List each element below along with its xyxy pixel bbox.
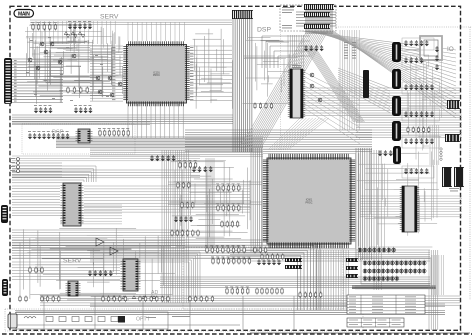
wire bus: rail pair y124 <box>12 122 150 125</box>
opt black box <box>118 316 125 323</box>
wire bus: serv bottom rails <box>12 262 120 279</box>
cluster: diode row mid <box>66 35 69 38</box>
wire bus: verticals right of central IC <box>356 148 371 260</box>
DSP section dotted divider <box>280 27 282 152</box>
cluster: ground triangles row y296 <box>112 296 115 299</box>
opt row boxes <box>46 317 53 322</box>
jack J705 <box>393 146 401 164</box>
wire fan: DSP diagonal bundle left <box>240 31 328 148</box>
wire mesh: mid upper field <box>193 29 233 109</box>
cluster: caps under band y217 <box>174 216 177 222</box>
svg-text:PROC: PROC <box>153 74 160 77</box>
right edge header block B <box>454 167 464 187</box>
IO section dotted border <box>336 27 472 300</box>
capacitor C901 cylinder <box>8 314 17 328</box>
wire bus: long rails y277 <box>160 277 430 288</box>
wire bus: central IC top rails <box>185 130 372 152</box>
cluster: TL mid components <box>96 76 100 80</box>
IC101 servo QFP <box>127 45 187 104</box>
wire steps: left lower L bus <box>12 166 96 183</box>
wire bus: bottom rails y297 <box>40 296 460 305</box>
wire bus: verticals left of central IC <box>251 148 262 252</box>
wire bus: band second <box>90 149 263 156</box>
wire bus: short rails y202 <box>168 202 262 204</box>
cluster: row y234 <box>171 230 173 237</box>
jack J702 <box>392 69 401 89</box>
cluster: top diodes <box>64 32 67 35</box>
cluster: caps mid x200 <box>192 166 195 172</box>
wire bus: right low band <box>355 286 435 289</box>
cluster: boxes x218 y186 <box>217 185 219 192</box>
wire bus: cn602 horizontals <box>296 12 336 26</box>
wire mesh: left of IC601 <box>170 161 251 247</box>
svg-text:SERV: SERV <box>100 14 119 21</box>
right edge comb RB2 <box>445 134 460 142</box>
cluster: boxes row y110 right <box>254 103 256 110</box>
cluster: AD row1b <box>254 247 256 254</box>
wire bus: left long rails y170 <box>12 170 200 178</box>
wire bus: right long rails upper <box>302 88 460 116</box>
to the panel text <box>449 187 459 190</box>
cluster: dsp caps row <box>28 133 31 139</box>
right edge header block A <box>442 167 452 187</box>
text block dsp top <box>282 6 294 9</box>
cluster: caps bottom of TL <box>34 107 37 113</box>
right edge comb RB1 <box>447 100 460 109</box>
cluster: io cap group 5 <box>402 136 439 148</box>
cluster: io caps right col <box>435 46 438 52</box>
connector bar center-right <box>363 70 369 98</box>
wire bus: right mid rails <box>360 196 462 217</box>
DSP top dashed box <box>280 5 336 31</box>
wire bus: dip right rails <box>84 186 250 212</box>
IC701 vertical DIP right <box>402 186 417 232</box>
wire mesh: dsp left field <box>243 38 298 110</box>
wire fan: IC501 right fan <box>304 72 360 144</box>
wire steps: AD entry <box>90 252 200 300</box>
left edge test point circles <box>17 158 20 173</box>
OPT inner solid box <box>16 312 168 329</box>
jack J703 <box>392 96 401 116</box>
wire bus: verticals bottom right <box>432 255 444 295</box>
connector CN602 top right comb <box>304 4 334 10</box>
sheet edge dashed line <box>2 333 472 335</box>
IC chip label dsp servo <box>292 64 301 67</box>
connector hatch rows under CN602 <box>304 12 330 17</box>
wire bus: dotted rails dsp bottom <box>12 156 200 161</box>
cluster: below IC601 row <box>261 254 263 261</box>
wire bus: top rails above IC101 <box>30 20 232 24</box>
cluster: boxes x222 y222 <box>221 221 223 228</box>
wire mesh: right of IC601 field <box>357 150 439 248</box>
cluster: resistors left of IC601 <box>179 162 181 169</box>
MAIN label <box>14 10 34 18</box>
wire bus: left connector fan <box>12 59 63 103</box>
wire mesh: serv bottom field <box>20 228 175 300</box>
row above opt: cluster b <box>41 296 43 303</box>
wire fan: fan into central IC top <box>268 118 329 150</box>
row above opt: cluster a <box>19 296 21 303</box>
IC402 SOIC lower <box>68 281 78 296</box>
table: spec table <box>347 295 425 314</box>
cluster: boxes x218 y206 <box>217 205 219 212</box>
wire bus: verticals right col <box>430 125 439 165</box>
wire bus: verticals below IC101 <box>128 104 183 138</box>
cluster: dsp right res row <box>99 130 101 137</box>
connector CN601 top comb <box>232 10 253 19</box>
wire bus: right rails y115-140 <box>356 115 462 138</box>
wire bus: verticals below central IC <box>316 250 349 310</box>
opt text <box>146 316 156 319</box>
cluster: io cap group 3 <box>402 82 439 94</box>
wire bus: left dip rails <box>12 186 60 216</box>
cluster: AD row3 <box>226 288 228 295</box>
wire bus: lower left rails <box>12 230 185 248</box>
IC101 pin labels left <box>112 46 115 49</box>
wire steps: nested L bus bottom-left <box>12 240 320 310</box>
cluster: AD row3 right <box>256 288 258 295</box>
row above opt: cluster e <box>189 296 191 303</box>
wire bus: center vertical bus <box>233 19 252 152</box>
cluster: mid caps y155 <box>150 155 153 161</box>
cluster: serv bottom left boxes <box>29 267 31 274</box>
wire bus: IC101 right rails <box>190 46 232 101</box>
wire bus: rails y305 <box>90 304 445 306</box>
connector CN101 left <box>4 58 12 104</box>
wire bus: verticals frame bottom drops <box>44 296 294 330</box>
cluster: transistor grid bottom right <box>361 258 431 284</box>
cluster: AD row1 resistors <box>206 247 208 254</box>
IC501 dsp servo vertical <box>290 69 303 118</box>
cluster: transistors right of IC501 <box>310 73 314 77</box>
cluster: opamp triangles <box>96 238 118 255</box>
cluster: io cap group 2 <box>402 55 429 67</box>
cluster: AD row2 <box>212 258 214 265</box>
wire bus: dsp servo verticals <box>288 35 303 68</box>
cluster: caps row above dsp B <box>74 107 77 113</box>
cluster: io cap group 6 <box>402 166 434 178</box>
wire bus: vertical bundle x206 <box>206 158 214 250</box>
wire fan: DSP diagonal bundle right <box>301 31 456 118</box>
cluster: transistor group TL2 <box>28 58 32 62</box>
cluster: IC601 right caps <box>378 150 381 156</box>
opt wire rail <box>17 324 240 326</box>
svg-text:PROC: PROC <box>306 201 313 204</box>
cluster: top caps row A <box>68 23 71 29</box>
AD dashed sub-box <box>183 247 343 309</box>
right top box component <box>420 36 442 60</box>
row above opt: cluster d <box>139 296 141 303</box>
wire bus: bottom rail y330 <box>250 332 470 334</box>
wire bus: verticals into IC101 top <box>128 22 184 41</box>
row above opt: cluster c <box>102 296 104 303</box>
wire bus: dense band left <box>56 137 263 148</box>
wire bus: central IC bottom rails <box>230 250 430 261</box>
connector CN201 left lower <box>1 205 8 223</box>
cluster: row above grid <box>358 247 362 254</box>
cluster: y296 row center <box>299 292 301 299</box>
IC601 main QFP <box>267 158 351 244</box>
cluster: AD combs right <box>285 258 302 262</box>
opt inductor L901 <box>24 317 36 319</box>
wire bus: mid rails row <box>12 115 233 123</box>
wire mesh: io right field <box>403 42 445 159</box>
wire bus: rails into IC101 left pins <box>90 46 123 101</box>
cluster: io cap group 4 <box>402 109 439 121</box>
svg-text:DSP: DSP <box>257 27 271 34</box>
wire fan: dsp mid diagonal A <box>305 48 364 122</box>
IC401 DIP lower <box>123 259 138 291</box>
svg-text:MAIN: MAIN <box>18 11 30 17</box>
wire bus: verticals right col low <box>429 250 438 330</box>
cluster: dsp mid specks <box>344 41 348 44</box>
cluster: transistor group TL <box>40 42 44 46</box>
cluster: io cap group 1 <box>402 38 434 50</box>
cluster: dsp servo caps <box>304 45 307 51</box>
wire bus: short rails y183 <box>168 182 262 184</box>
wire bus: verticals from top rails <box>36 21 115 44</box>
wire bus: verticals far right of IC <box>374 150 381 290</box>
table: small table <box>347 318 404 327</box>
wire mesh: top-left upper strip <box>25 24 120 61</box>
IC301 opamp DIP <box>63 183 81 226</box>
IC201 SOIC dsp <box>78 129 90 143</box>
DSP dotted sub-box <box>22 124 135 154</box>
cluster: small boxes y95 <box>67 87 69 94</box>
connector CN301 left bottom <box>2 279 8 296</box>
right circles row <box>440 148 442 161</box>
cluster: AD row2 right <box>257 259 260 265</box>
wire bus: verticals dsp fan left <box>340 30 359 130</box>
wire fan: dsp mid diagonal B <box>338 68 390 113</box>
cluster: top-left resistor row <box>32 24 34 31</box>
cluster: io box row A <box>407 127 409 133</box>
cluster: serv bottom caps <box>88 270 91 276</box>
cluster: TL smudge labels <box>30 39 33 42</box>
left edge tp labels <box>10 157 15 160</box>
jack J704 <box>392 121 401 141</box>
IC101 pin labels right <box>190 46 193 49</box>
wire loops: dsp nested Ls <box>262 36 310 68</box>
wire mesh: top-left component field <box>26 38 124 104</box>
connector CN101 labels <box>14 59 17 62</box>
IC601 pin tip outline <box>263 154 356 249</box>
wire bus: rails y205 x60-120 <box>60 205 122 224</box>
wire bus: thick band y286 <box>352 286 436 289</box>
wire bus: left mid rails <box>12 163 62 177</box>
jack J701 <box>392 42 401 62</box>
wire fan: connector CN602 drop <box>306 10 332 34</box>
cluster: left of grid combs <box>346 258 358 262</box>
cluster: boxes left of IC601 lower <box>177 182 179 189</box>
OPT dotted box <box>5 309 363 331</box>
wire bus: bottom long rails <box>15 311 445 315</box>
wire bus: vertical bundle x162 <box>162 150 188 303</box>
